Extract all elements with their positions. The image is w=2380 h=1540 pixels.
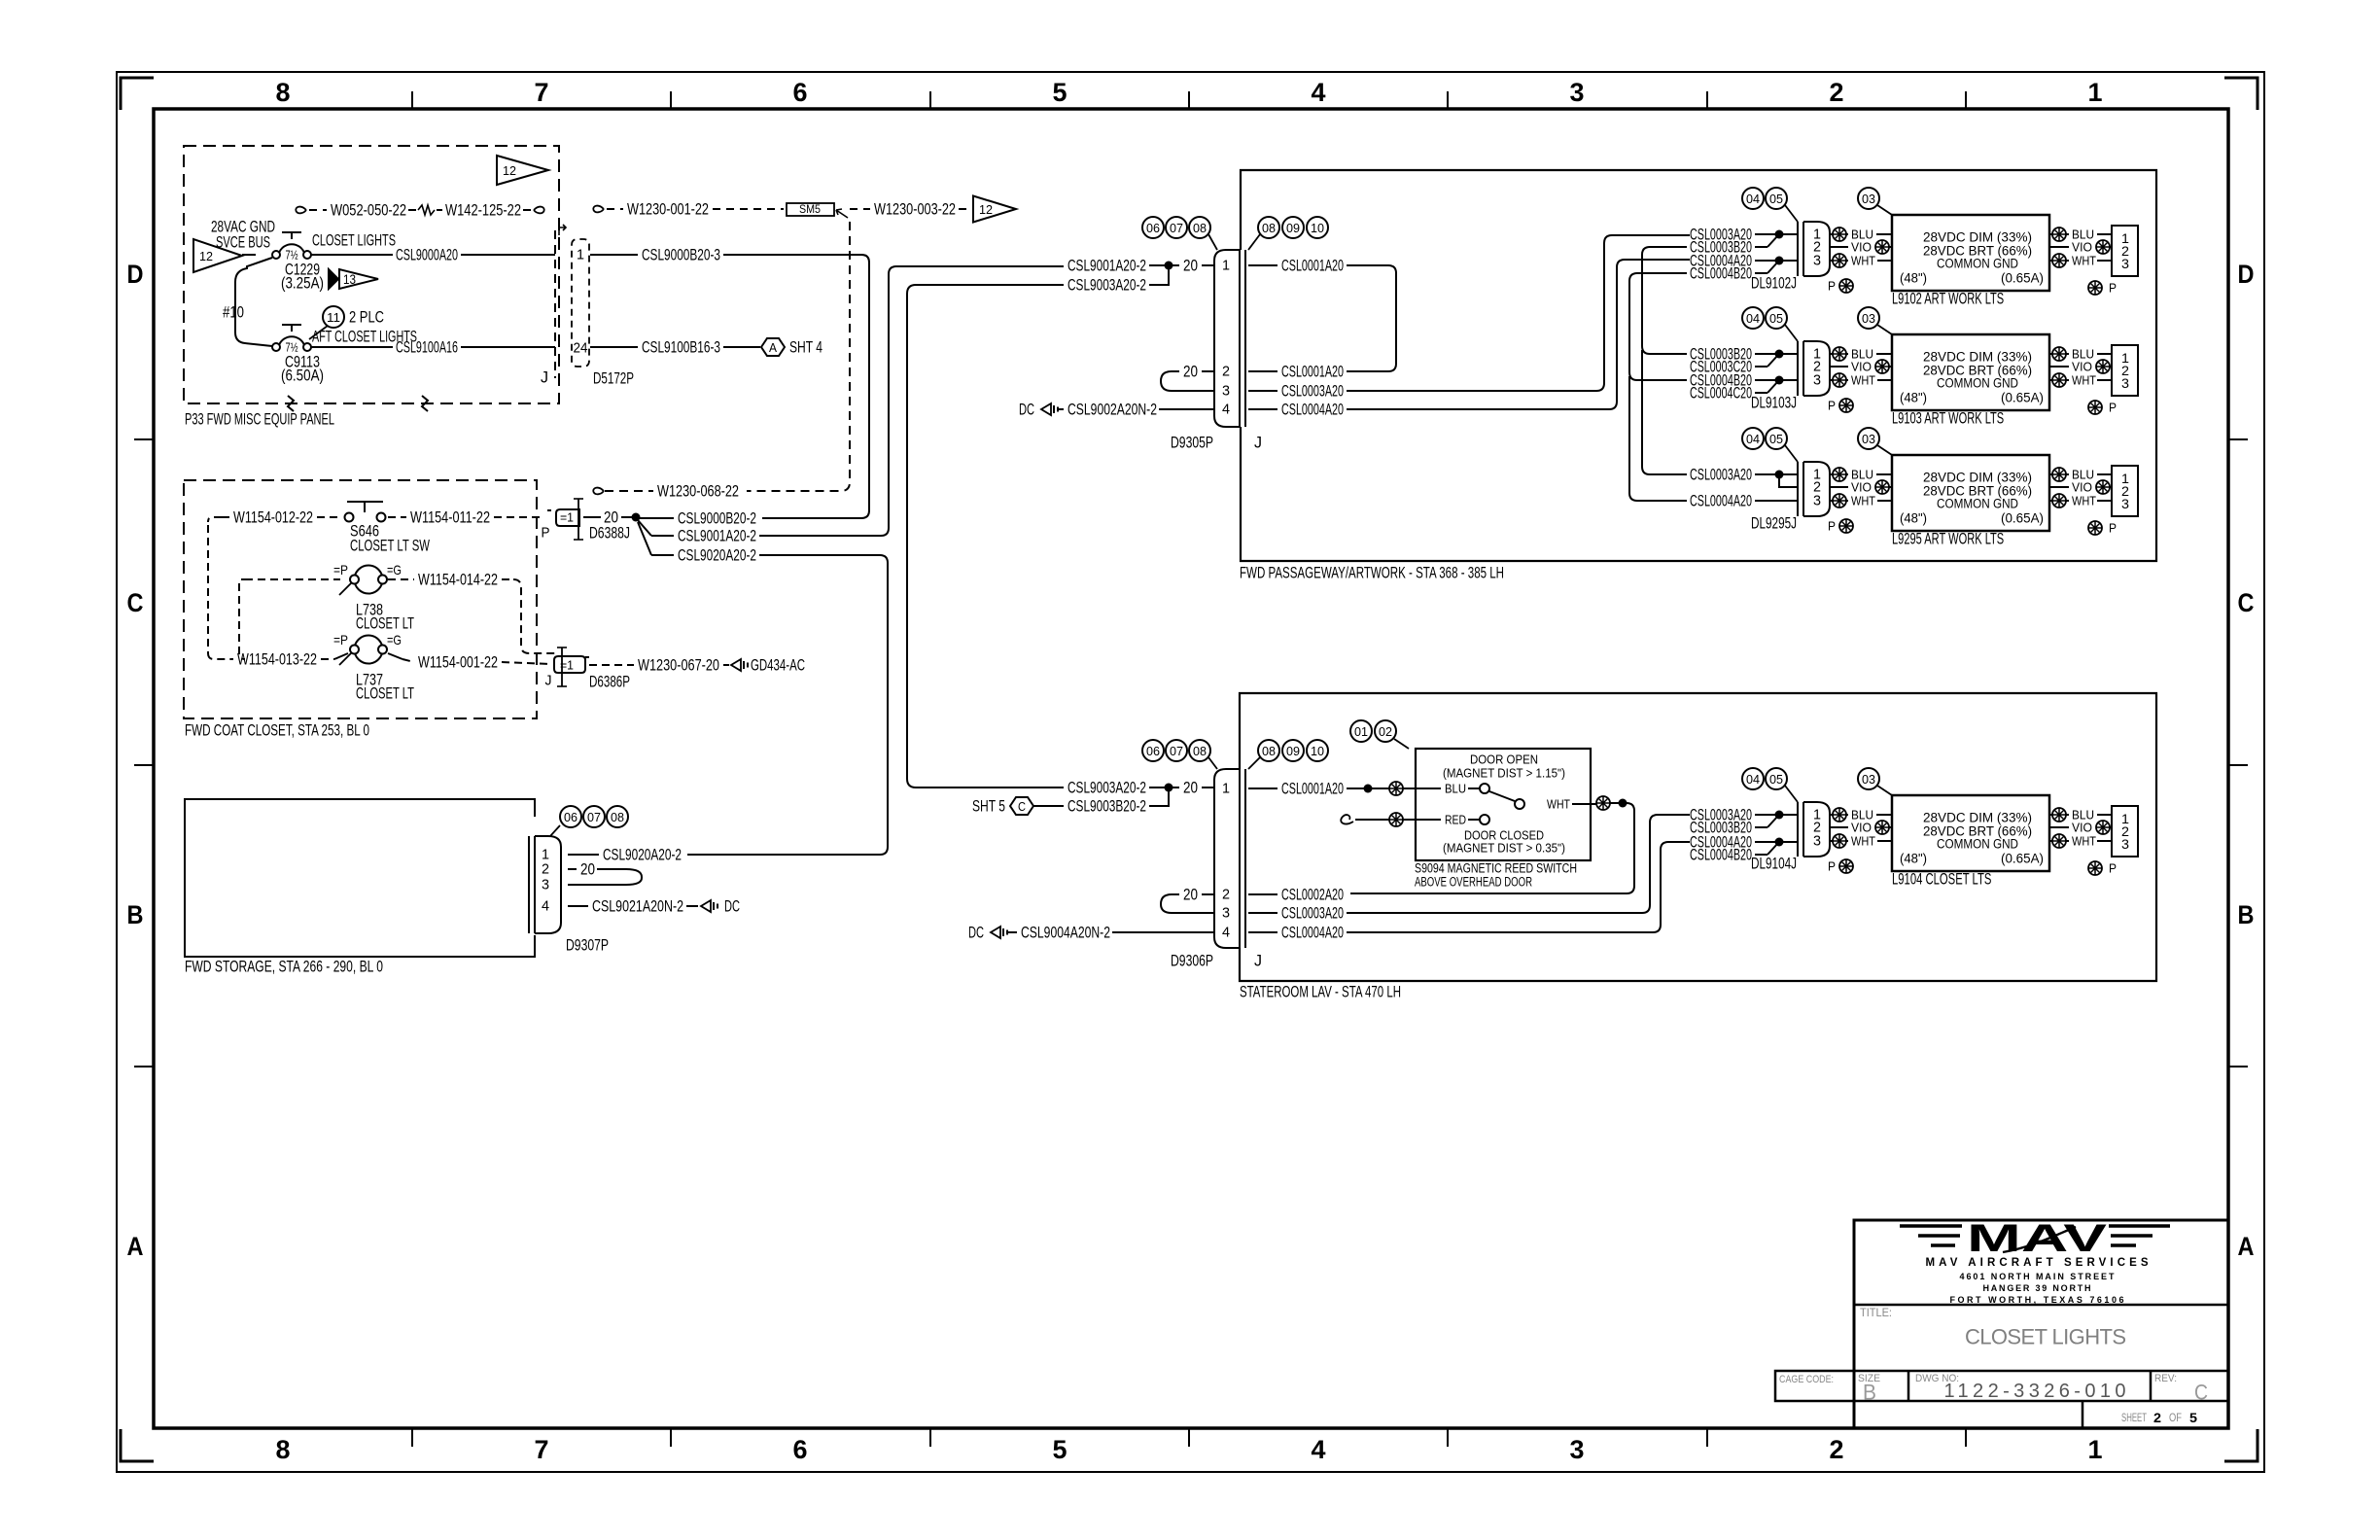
svg-text:DL9104J: DL9104J — [1751, 855, 1797, 873]
svg-text:4: 4 — [542, 898, 549, 915]
D6386P labels J and D6386P — [545, 673, 631, 691]
svg-text:4: 4 — [1312, 1435, 1326, 1464]
svg-text:(0.65A): (0.65A) — [2001, 511, 2044, 526]
svg-text:CSL0004A20: CSL0004A20 — [1281, 401, 1344, 419]
left dashed bracket outer — [208, 525, 231, 659]
svg-text:10: 10 — [1311, 744, 1324, 758]
wire from bus to breaker C1229 — [242, 254, 256, 256]
DL9104J output BLU — [1830, 808, 1892, 822]
bus source triangle 12 — [193, 239, 242, 272]
D9306P identification circles 06 07 08 — [1142, 740, 1217, 769]
svg-text:P: P — [2109, 401, 2117, 415]
DL9102J identification circles 04 05 — [1742, 188, 1798, 222]
svg-text:P: P — [2109, 521, 2117, 536]
zone letter D right — [2238, 260, 2255, 289]
DL9103J label — [1751, 394, 1797, 412]
DL9102J shield splice P — [1828, 279, 1853, 294]
svg-text:06: 06 — [1146, 744, 1160, 758]
light unit label L9103 ART WORK LTS — [1892, 409, 2004, 428]
svg-text:P: P — [2109, 861, 2117, 876]
svg-text:WHT: WHT — [1851, 494, 1875, 508]
svg-text:3: 3 — [2121, 375, 2129, 391]
svg-text:DL9103J: DL9103J — [1751, 394, 1797, 412]
rev field — [2154, 1373, 2208, 1405]
svg-text:W1154-011-22: W1154-011-22 — [410, 508, 490, 527]
DL9104J identification circles 04 05 — [1742, 768, 1798, 802]
svg-text:WHT: WHT — [2072, 834, 2096, 849]
L9103 ART WORK LTS right output WHT — [2049, 373, 2112, 388]
connector D9307P — [529, 836, 561, 933]
L9104 CLOSET LTS right output BLU — [2049, 808, 2112, 822]
wire CSL9020A20-2 at D9307P pin 1 — [568, 846, 682, 864]
svg-text:C: C — [2194, 1381, 2208, 1405]
svg-text:P: P — [2109, 281, 2117, 296]
lamp L738 labels — [356, 601, 414, 633]
svg-text:=G: =G — [387, 632, 402, 647]
zone letter B right — [2238, 900, 2255, 929]
svg-text:VIO: VIO — [1851, 360, 1872, 374]
svg-text:3: 3 — [2121, 836, 2129, 852]
zone number 1 bottom — [2088, 1435, 2103, 1464]
svg-text:P: P — [1828, 399, 1836, 413]
svg-text:20: 20 — [1183, 779, 1198, 797]
svg-text:(0.65A): (0.65A) — [2001, 391, 2044, 405]
svg-text:02: 02 — [1379, 724, 1392, 739]
FWD COAT CLOSET label — [185, 721, 369, 740]
svg-text:CSL0001A20: CSL0001A20 — [1281, 363, 1344, 381]
zone divider tick left — [134, 438, 154, 440]
svg-text:CLOSET LIGHTS: CLOSET LIGHTS — [1965, 1325, 2126, 1349]
D9305P labels D9305P and J — [1171, 434, 1262, 452]
wire 20 from D6388J with junction — [583, 508, 641, 527]
svg-text:CLOSET LIGHTS: CLOSET LIGHTS — [312, 231, 396, 250]
L9295 ART WORK LTS terminal block 1 2 3 — [2112, 466, 2138, 516]
left dashed bracket inner — [239, 579, 340, 659]
svg-text:CSL0003A20: CSL0003A20 — [1281, 382, 1344, 401]
svg-text:COMMON GND: COMMON GND — [1937, 837, 2018, 852]
svg-text:2: 2 — [1830, 78, 1844, 107]
wire CSL0004A20 into DL9295J — [1690, 492, 1798, 510]
svg-text:08: 08 — [1262, 744, 1276, 758]
wire bundle label W052-050-22 / W142-125-22 — [296, 201, 543, 220]
wire WHT splice to CSL0002A20 — [1248, 796, 1634, 904]
wire W1154-011-22 to D6388J — [388, 508, 544, 527]
svg-text:L9295 ART WORK LTS: L9295 ART WORK LTS — [1892, 530, 2004, 548]
wire CSL0004A20 into DL9104J — [1690, 833, 1798, 852]
DL9295J output WHT — [1830, 494, 1892, 508]
switch S646 closet light switch — [345, 502, 386, 522]
STATEROOM LAV enclosure — [1240, 693, 2156, 981]
svg-text:C: C — [127, 588, 144, 617]
svg-text:(6.50A): (6.50A) — [281, 367, 324, 385]
svg-text:24: 24 — [574, 340, 588, 357]
wire W1154-013-22 to L737 — [231, 650, 348, 669]
zone letter B left — [127, 900, 144, 929]
svg-text:VIO: VIO — [1851, 480, 1872, 495]
svg-text:(MAGNET DIST > 0.35ʺ): (MAGNET DIST > 0.35ʺ) — [1443, 841, 1565, 856]
svg-text:2: 2 — [1222, 364, 1230, 380]
svg-text:03: 03 — [1862, 192, 1875, 206]
zone divider tick top — [670, 91, 672, 109]
svg-text:7: 7 — [535, 78, 549, 107]
zone number 6 top — [793, 78, 808, 107]
light unit L9104 CLOSET LTS — [1892, 795, 2049, 871]
svg-text:W1230-067-20: W1230-067-20 — [638, 656, 719, 675]
svg-text:P: P — [1828, 859, 1836, 874]
svg-text:(48ʺ): (48ʺ) — [1900, 852, 1927, 866]
dwg no field — [1915, 1373, 2126, 1402]
D9307P pins 2-3 jumper 20 — [568, 860, 642, 886]
wire CSL9004A20N-2 to ground DC at D9306P pin 4 — [968, 924, 1214, 942]
DL9103J output BLU — [1830, 347, 1892, 362]
wire CSL9020A20-2 to D9307P — [638, 522, 888, 855]
svg-text:CSL9002A20N-2: CSL9002A20N-2 — [1067, 401, 1157, 419]
svg-text:2 PLC: 2 PLC — [349, 308, 384, 327]
D5172P labels J and D5172P — [541, 368, 634, 388]
zone divider tick bottom — [1706, 1428, 1708, 1447]
cage code box — [1775, 1371, 1854, 1401]
lamp L737 terminal labels =P =G — [333, 632, 402, 647]
svg-text:WHT: WHT — [1851, 373, 1875, 388]
sheet reference SHT 5 hexagon C and wire CSL9003B20-2 — [972, 791, 1169, 816]
svg-text:13: 13 — [343, 271, 356, 287]
svg-text:HANGER 39 NORTH: HANGER 39 NORTH — [1983, 1283, 2091, 1293]
bus wire CSL0004B20 vertical M1 to M2 to L9295 — [1629, 273, 1687, 501]
reed switch DOOR OPEN note — [1443, 752, 1565, 781]
wire CSL9000B20-3 from D5172P — [590, 246, 869, 519]
L9104 CLOSET LTS right output WHT — [2049, 834, 2112, 849]
zone number 4 bottom — [1312, 1435, 1326, 1464]
svg-text:WHT: WHT — [2072, 254, 2096, 268]
svg-text:(0.65A): (0.65A) — [2001, 271, 2044, 286]
svg-text:08: 08 — [1262, 221, 1276, 235]
svg-text:VIO: VIO — [2072, 821, 2092, 835]
svg-text:CSL0004A20: CSL0004A20 — [1690, 492, 1752, 510]
STATEROOM LAV label — [1240, 983, 1401, 1001]
svg-text:B: B — [1863, 1381, 1876, 1405]
svg-text:TITLE:: TITLE: — [1860, 1306, 1892, 1319]
zone number 8 bottom — [276, 1435, 291, 1464]
svg-text:1: 1 — [577, 247, 584, 263]
lamp L737 closet light — [339, 636, 387, 666]
sheet field SHEET 2 OF 5 — [2121, 1410, 2197, 1425]
lamp L737 labels — [356, 671, 414, 703]
connector D6388J splice =1 — [547, 499, 583, 540]
wire CSL9003A20-2 at D9305P — [907, 269, 1169, 787]
DL9102J output BLU — [1830, 227, 1892, 242]
svg-text:28VDC DIM (33%): 28VDC DIM (33%) — [1923, 230, 2032, 245]
svg-text:2: 2 — [1222, 887, 1230, 903]
corner trim mark bottom-right — [2224, 1429, 2257, 1461]
svg-text:4: 4 — [1222, 925, 1230, 941]
svg-text:CSL0001A20: CSL0001A20 — [1281, 257, 1344, 275]
svg-text:STATEROOM LAV - STA 470 LH: STATEROOM LAV - STA 470 LH — [1240, 983, 1401, 1001]
svg-text:FWD PASSAGEWAY/ARTWORK - STA 3: FWD PASSAGEWAY/ARTWORK - STA 368 - 385 L… — [1240, 564, 1504, 582]
svg-text:20: 20 — [604, 508, 618, 527]
svg-text:A: A — [127, 1232, 144, 1261]
dashed shield drain vertical — [605, 222, 850, 491]
svg-text:3: 3 — [1570, 1435, 1585, 1464]
svg-text:RED: RED — [1445, 813, 1466, 827]
svg-text:WHT: WHT — [1547, 797, 1570, 812]
L9295 ART WORK LTS right output BLU — [2049, 468, 2112, 482]
svg-text:COMMON GND: COMMON GND — [1937, 257, 2018, 271]
reed switch S9094 box — [1416, 749, 1591, 860]
DL9295J shield splice P — [1828, 519, 1853, 534]
svg-text:4: 4 — [1222, 402, 1230, 418]
svg-text:09: 09 — [1286, 221, 1300, 235]
svg-text:5: 5 — [1053, 78, 1067, 107]
svg-text:3: 3 — [1222, 383, 1230, 400]
wire CSL9100A16 to D5172P pin 24 — [311, 338, 555, 357]
corner trim mark top-left — [121, 78, 154, 110]
L9295 ART WORK LTS right output WHT — [2049, 494, 2112, 508]
svg-text:20: 20 — [1183, 257, 1198, 275]
svg-text:05: 05 — [1769, 192, 1783, 206]
light unit L9103 ART WORK LTS circle 03 — [1858, 307, 1892, 334]
wire CSL0003B20 into DL9102J — [1690, 235, 1778, 257]
svg-text:P33 FWD MISC EQUIP PANEL: P33 FWD MISC EQUIP PANEL — [185, 410, 334, 429]
wire CSL0004A20 into DL9102J — [1690, 252, 1798, 270]
svg-text:=P: =P — [333, 632, 348, 647]
zone divider tick top — [929, 91, 931, 109]
wire CSL0001A20 from D9306P pin 1 to reed switch — [1248, 780, 1441, 798]
svg-text:1: 1 — [1222, 258, 1230, 274]
svg-text:04: 04 — [1746, 432, 1760, 446]
DL9104J output WHT — [1830, 834, 1892, 849]
svg-text:GD434-AC: GD434-AC — [751, 656, 805, 675]
D9307P label — [566, 936, 609, 955]
wire CSL0003A20 into DL9102J — [1690, 226, 1798, 244]
drawing sheet inner border — [154, 109, 2228, 1428]
svg-text:CSL0004B20: CSL0004B20 — [1690, 846, 1752, 864]
svg-text:P: P — [1828, 279, 1836, 294]
svg-text:09: 09 — [1286, 744, 1300, 758]
svg-text:CSL9000B20-2: CSL9000B20-2 — [678, 509, 756, 528]
wire W1154-014-22 from L738 — [388, 571, 556, 654]
svg-text:COMMON GND: COMMON GND — [1937, 497, 2018, 511]
L9103 ART WORK LTS terminal block 1 2 3 — [2112, 345, 2138, 396]
svg-text:07: 07 — [587, 810, 601, 824]
wire CSL9000A20 to D5172P pin 1 — [311, 246, 555, 264]
L9102 ART WORK LTS right output VIO — [2049, 240, 2112, 255]
svg-text:CLOSET LT: CLOSET LT — [356, 684, 414, 703]
svg-text:SHEET: SHEET — [2121, 1411, 2147, 1424]
svg-text:(48ʺ): (48ʺ) — [1900, 271, 1927, 286]
P33 panel label — [185, 410, 334, 429]
svg-text:20: 20 — [580, 860, 595, 879]
L9104 CLOSET LTS terminal block 1 2 3 — [2112, 806, 2138, 857]
svg-text:CSL9001A20-2: CSL9001A20-2 — [678, 527, 756, 545]
corner trim mark bottom-left — [121, 1429, 154, 1461]
svg-text:07: 07 — [1170, 221, 1183, 235]
zone divider tick top — [1447, 91, 1449, 109]
svg-text:2: 2 — [2153, 1410, 2161, 1425]
zone divider tick top — [1965, 91, 1967, 109]
svg-text:COMMON GND: COMMON GND — [1937, 376, 2018, 391]
MAV logo speed lines right — [2109, 1226, 2170, 1245]
svg-text:CSL9020A20-2: CSL9020A20-2 — [603, 846, 682, 864]
svg-text:01: 01 — [1354, 724, 1368, 739]
wire gauge #10 jumper — [223, 258, 272, 346]
wire W1154-012-22 to switch — [208, 508, 342, 527]
svg-text:C: C — [2238, 588, 2255, 617]
svg-text:04: 04 — [1746, 311, 1760, 326]
drawing title CLOSET LIGHTS — [1965, 1325, 2126, 1349]
L9103 ART WORK LTS right shield splice P — [2088, 401, 2117, 415]
zone divider tick bottom — [1447, 1428, 1449, 1447]
size field — [1858, 1373, 1880, 1405]
D9306P identification circles 08 09 10 — [1248, 740, 1328, 769]
zone divider tick right — [2228, 1066, 2248, 1067]
DL9104J label — [1751, 855, 1797, 873]
FWD PASSAGEWAY/ARTWORK enclosure — [1241, 170, 2156, 561]
connector D9305P — [1214, 250, 1245, 427]
svg-text:CLOSET LT: CLOSET LT — [356, 614, 414, 633]
zone number 3 top — [1570, 78, 1585, 107]
connector D6386P splice =1 — [554, 647, 589, 686]
svg-text:D6386P: D6386P — [589, 673, 630, 691]
svg-text:W1154-012-22: W1154-012-22 — [233, 508, 313, 527]
MAV AIRCRAFT SERVICES name — [1926, 1257, 2149, 1269]
svg-text:J: J — [1254, 952, 1262, 970]
zone divider tick top — [411, 91, 413, 109]
svg-text:DL9102J: DL9102J — [1751, 274, 1797, 293]
address FORT WORTH TEXAS 76106 — [1950, 1295, 2124, 1305]
wire CSL9021A20N-2 to ground DC — [568, 897, 740, 916]
svg-text:D5172P: D5172P — [593, 369, 634, 388]
svg-text:VIO: VIO — [2072, 240, 2092, 255]
effectivity flag triangle 13 — [329, 269, 378, 289]
zone divider tick bottom — [670, 1428, 672, 1447]
svg-text:WHT: WHT — [1851, 834, 1875, 849]
svg-text:3: 3 — [2121, 256, 2129, 271]
L9102 ART WORK LTS right output BLU — [2049, 227, 2112, 242]
connector D5172P dashed outline — [555, 225, 589, 378]
svg-text:12: 12 — [979, 202, 993, 217]
DL9104J shield splice P — [1828, 859, 1853, 874]
svg-text:W1154-014-22: W1154-014-22 — [418, 571, 498, 589]
D9306P labels D9306P and J — [1171, 952, 1262, 970]
svg-text:SM5: SM5 — [799, 202, 821, 216]
svg-text:CSL9100A16: CSL9100A16 — [396, 338, 458, 357]
DL9103J output WHT — [1830, 373, 1892, 388]
title label TITLE: — [1860, 1306, 1892, 1319]
svg-text:(3.25A): (3.25A) — [281, 274, 324, 293]
svg-text:06: 06 — [1146, 221, 1160, 235]
L9295 ART WORK LTS right output VIO — [2049, 480, 2112, 495]
D9306P pins 2-3 jumper 20 — [1161, 886, 1214, 914]
svg-text:3: 3 — [1222, 905, 1230, 922]
zone divider tick top — [1188, 91, 1190, 109]
svg-text:03: 03 — [1862, 432, 1875, 446]
FWD STORAGE label — [185, 958, 383, 976]
reed switch identification circles 01 02 — [1350, 720, 1409, 749]
svg-text:D9307P: D9307P — [566, 936, 609, 955]
L9104 CLOSET LTS right shield splice P — [2088, 861, 2117, 876]
svg-text:4601 NORTH MAIN STREET: 4601 NORTH MAIN STREET — [1960, 1272, 2116, 1281]
svg-text:B: B — [2238, 900, 2255, 929]
wire CSL0003A20 from D9306P pin 3 to DL9104J — [1248, 815, 1690, 923]
P33 FWD MISC EQUIP PANEL dashed enclosure — [184, 146, 559, 411]
sheet-reference triangle 12 top — [497, 156, 548, 185]
wire label W1230-068-22 — [593, 482, 739, 501]
wire jumper into DL9295J — [1779, 478, 1798, 487]
svg-text:1: 1 — [2088, 1435, 2103, 1464]
light unit L9103 ART WORK LTS — [1892, 334, 2049, 410]
svg-text:CSL0003A20: CSL0003A20 — [1281, 904, 1344, 923]
zone letter A left — [127, 1232, 144, 1261]
D9305P pins 2-3 jumper 20 — [1161, 363, 1214, 392]
svg-text:W1154-013-22: W1154-013-22 — [237, 650, 317, 669]
svg-text:(MAGNET DIST > 1.15ʺ): (MAGNET DIST > 1.15ʺ) — [1443, 766, 1565, 781]
reed switch WHT output — [1547, 797, 1596, 812]
svg-text:(0.65A): (0.65A) — [2001, 852, 2044, 866]
sheet reference hexagon A SHT 4 — [761, 338, 822, 357]
L9104 CLOSET LTS right output VIO — [2049, 821, 2112, 835]
svg-text:CAGE CODE:: CAGE CODE: — [1779, 1374, 1834, 1385]
svg-text:C: C — [1018, 799, 1026, 814]
zone divider tick left — [134, 764, 154, 766]
svg-text:28VDC DIM (33%): 28VDC DIM (33%) — [1923, 811, 2032, 825]
DL9295J identification circles 04 05 — [1742, 428, 1798, 462]
wire CSL0003B20 into DL9103J — [1690, 345, 1798, 364]
svg-text:3: 3 — [1813, 253, 1821, 269]
corner trim mark top-right — [2224, 78, 2257, 110]
svg-text:OF: OF — [2169, 1411, 2182, 1424]
D5172P pin 1 — [577, 247, 584, 263]
wire CSL0003C20 into DL9103J — [1690, 355, 1778, 376]
wire CSL0003A20 from D9305P pin 3 — [1248, 235, 1690, 401]
svg-text:VIO: VIO — [1851, 240, 1872, 255]
svg-text:08: 08 — [1193, 744, 1207, 758]
svg-text:MAV: MAV — [1967, 1217, 2108, 1260]
svg-text:S9094 MAGNETIC REED SWITCH: S9094 MAGNETIC REED SWITCH — [1415, 861, 1577, 876]
DL9103J identification circles 04 05 — [1742, 307, 1798, 341]
breaker C9113 labels — [281, 353, 324, 385]
svg-text:WHT: WHT — [2072, 494, 2096, 508]
zone letter C left — [127, 588, 144, 617]
svg-text:B: B — [127, 900, 144, 929]
svg-text:04: 04 — [1746, 192, 1760, 206]
svg-text:CSL9004A20N-2: CSL9004A20N-2 — [1021, 924, 1110, 942]
svg-text:W142-125-22: W142-125-22 — [445, 201, 521, 220]
connector D9306P — [1214, 769, 1245, 948]
zone divider tick left — [134, 1066, 154, 1067]
svg-text:W1230-003-22: W1230-003-22 — [874, 200, 956, 219]
connector DL9104J — [1798, 802, 1830, 857]
svg-text:1: 1 — [2088, 78, 2103, 107]
svg-text:8: 8 — [276, 78, 291, 107]
L9102 ART WORK LTS right shield splice P — [2088, 281, 2117, 296]
wire CSL0003B20 into DL9104J — [1690, 816, 1778, 837]
svg-text:2: 2 — [542, 861, 549, 878]
svg-text:FWD STORAGE, STA 266 - 290, BL: FWD STORAGE, STA 266 - 290, BL 0 — [185, 958, 383, 976]
zone number 4 top — [1312, 78, 1326, 107]
svg-text:3: 3 — [1813, 493, 1821, 509]
wire CSL9100B16-3 to sheet 4 flag — [590, 338, 760, 357]
DL9103J output VIO — [1830, 360, 1892, 374]
svg-text:REV:: REV: — [2154, 1373, 2177, 1384]
svg-text:WHT: WHT — [2072, 373, 2096, 388]
wire CSL9001A20-2 to D9305P — [638, 266, 1064, 545]
svg-text:20: 20 — [1183, 886, 1198, 904]
DL9295J output BLU — [1830, 468, 1892, 482]
wire CSL0004B20 into DL9102J — [1690, 262, 1778, 283]
svg-text:5: 5 — [2189, 1410, 2197, 1425]
reed switch BLU terminal and arm — [1445, 782, 1524, 810]
zone number 3 bottom — [1570, 1435, 1585, 1464]
